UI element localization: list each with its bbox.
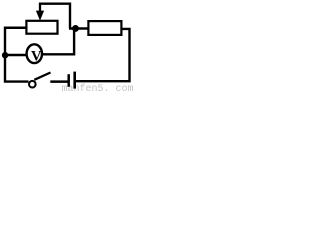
rheostat slider arrow shaft [39,4,41,12]
watermark manfen5.com [62,83,134,95]
svg-text:V: V [31,48,42,64]
battery long plate [73,72,76,89]
rheostat slider arrowhead [36,11,44,21]
wire: voltmeter right wire and branch up to junction [42,28,74,54]
voltmeter left wire [5,54,28,56]
wire: switch contact to battery short plate [50,80,67,83]
junction node (slider joins main wire) [72,25,79,32]
rheostat R1 box [26,21,57,34]
battery short plate [67,74,70,87]
svg-text:manfen5. com: manfen5. com [62,83,134,92]
switch lever (open) [34,73,50,80]
switch pivot circle [29,81,36,88]
resistor R2 box [88,21,121,35]
wire: resistor to right rail, right rail, bottom-right wire to battery [76,29,130,81]
wire: left loop (top-left wire, left rail, bottom-left wire) [5,28,29,82]
voltmeter V label [31,48,42,64]
wire: slider top wire down to junction [39,4,70,29]
voltmeter V1 body [27,44,42,63]
node: voltmeter tap on left rail [2,52,8,58]
wire: junction to resistor [69,27,89,29]
